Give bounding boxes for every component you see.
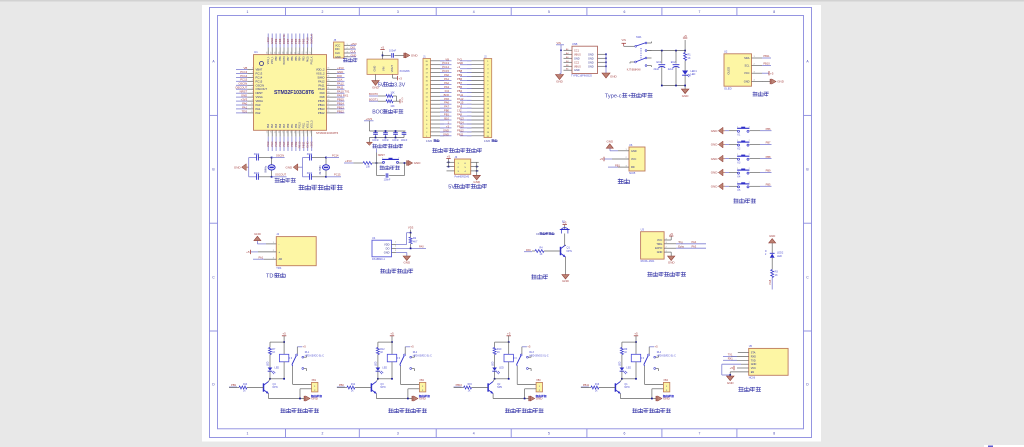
svg-text:2: 2	[321, 432, 323, 436]
bluetooth rxd wire	[731, 356, 749, 358]
svg-text:8: 8	[773, 432, 775, 436]
svg-text:BOOT: BOOT	[372, 110, 388, 116]
svg-text:TDS: TDS	[266, 274, 277, 280]
svg-text:OSCOUT: OSCOUT	[256, 87, 268, 91]
relay RL3 coil	[504, 354, 513, 362]
svg-text:VBAT: VBAT	[256, 68, 263, 72]
svg-text:22uF: 22uF	[668, 68, 674, 71]
svg-text:GND: GND	[457, 61, 463, 65]
svg-text:1K: 1K	[380, 351, 383, 354]
svg-text:GND: GND	[744, 80, 750, 84]
svg-text:GND: GND	[351, 53, 357, 57]
svg-text:PB4: PB4	[299, 56, 302, 61]
button K3 row	[718, 155, 723, 162]
svg-text:EC1: EC1	[657, 61, 662, 64]
svg-text:GND: GND	[411, 54, 419, 58]
svg-text:U4: U4	[372, 236, 376, 240]
module gnd pin wire	[618, 150, 629, 152]
svg-text:1: 1	[247, 432, 249, 436]
svg-text:PNCLK: PNCLK	[311, 56, 314, 64]
svg-text:VDD: VDD	[384, 243, 390, 247]
usb left gnd wiring	[560, 45, 562, 74]
svg-text:XB3: XB3	[536, 379, 541, 382]
svg-text:PB7: PB7	[457, 81, 463, 85]
svg-text:45: 45	[279, 52, 281, 54]
connector X4 pin2 wire	[652, 388, 664, 390]
svg-text:DO: DO	[386, 246, 390, 250]
svg-text:LED: LED	[620, 361, 622, 366]
svg-text:PC15: PC15	[334, 173, 341, 177]
svg-text:42: 42	[290, 52, 292, 54]
svg-text:PB11: PB11	[457, 132, 464, 136]
svg-text:GND: GND	[443, 128, 449, 132]
svg-text:1K: 1K	[272, 351, 275, 354]
svg-text:100nF: 100nF	[372, 140, 379, 142]
svg-text:VDDA: VDDA	[256, 99, 264, 103]
net label bottom Y2 32.768K	[326, 176, 341, 178]
svg-text:SC05: SC05	[629, 172, 636, 175]
svg-text:34: 34	[327, 76, 329, 78]
svg-text:R14: R14	[351, 384, 356, 386]
svg-text:PB3: PB3	[303, 56, 306, 61]
svg-text:5: 5	[548, 432, 550, 436]
button K5 row	[718, 183, 723, 190]
svg-text:+5: +5	[683, 34, 687, 38]
svg-text:7: 7	[252, 91, 253, 93]
svg-text:PB4: PB4	[457, 89, 463, 93]
svg-text:PB6: PB6	[457, 77, 463, 81]
svg-text:PA0: PA0	[256, 103, 261, 107]
capacitor 30pF top Y1 8MHz	[256, 155, 258, 161]
svg-text:LED: LED	[626, 367, 631, 370]
ds18b20 gnd wire	[392, 252, 397, 254]
svg-text:8MHz: 8MHz	[264, 165, 268, 172]
svg-text:PB7: PB7	[287, 56, 290, 61]
svg-text:GND: GND	[588, 65, 594, 68]
svg-text:KJT BB84X8: KJT BB84X8	[627, 68, 641, 71]
power +5 into VIN	[382, 52, 384, 60]
svg-text:EN: EN	[751, 371, 755, 374]
svg-text:7: 7	[698, 10, 700, 14]
svg-text:VB: VB	[445, 57, 449, 61]
relay 4 switch to connector	[643, 365, 646, 367]
svg-text:47: 47	[271, 52, 273, 54]
buzzer emitter to ground	[565, 257, 567, 275]
svg-text:GND: GND	[711, 129, 719, 133]
crystal Y2 32.768K	[325, 158, 327, 165]
svg-text:PB11: PB11	[763, 54, 770, 58]
svg-text:PA2: PA2	[444, 81, 449, 85]
svg-text:Type-c: Type-c	[605, 94, 622, 100]
relay 2 emitter ground	[375, 394, 377, 399]
svg-text:VSS_1: VSS_1	[271, 56, 274, 64]
ds18b20 vdd wire	[392, 244, 397, 246]
svg-text:PA0: PA0	[444, 73, 449, 77]
transistor Q2 NPN relay	[487, 383, 489, 391]
svg-text:VBUS: VBUS	[574, 53, 581, 56]
svg-text:PB12: PB12	[337, 109, 344, 113]
svg-text:PC15: PC15	[442, 69, 449, 73]
svg-text:PA3: PA3	[444, 85, 449, 89]
tds vcc pin	[258, 251, 276, 253]
led LED1	[682, 71, 688, 75]
svg-text:100nF: 100nF	[401, 140, 408, 142]
svg-text:5V: 5V	[378, 83, 385, 89]
svg-text:GND: GND	[668, 261, 676, 265]
caption smoke module	[618, 179, 630, 185]
svg-text:30pF: 30pF	[307, 172, 313, 175]
svg-text:XB2: XB2	[419, 379, 424, 382]
bottom rail and ground	[662, 85, 685, 87]
svg-text:GND: GND	[443, 132, 449, 136]
header J2 pin wires and net labels	[467, 60, 484, 62]
ground right of reset	[404, 162, 406, 164]
svg-text:SDA: SDA	[744, 56, 750, 60]
svg-text:TDS: TDS	[242, 109, 248, 113]
svg-text:STA: STA	[751, 352, 756, 355]
svg-text:PB8: PB8	[766, 155, 771, 159]
net +3V3 top	[410, 230, 412, 233]
capacitor 30pF bottom Y2 32.768K	[309, 174, 311, 180]
connector X1 pin2 wire	[300, 388, 312, 390]
svg-text:GND: GND	[769, 234, 775, 238]
svg-text:XC6206: XC6206	[400, 69, 411, 73]
svg-text:33: 33	[327, 80, 329, 82]
resistor R3 1K for LED2	[771, 270, 774, 278]
mcu U1 STM32F103C8T6 body	[254, 55, 327, 131]
connector X3 caption	[536, 395, 547, 398]
svg-text:VIN: VIN	[382, 67, 386, 71]
relay circuit 3 +5 rail	[507, 335, 511, 337]
second sheet corner	[984, 445, 1024, 447]
capacitor EC1 22uF	[661, 51, 663, 64]
svg-text:PA0: PA0	[419, 244, 424, 248]
svg-text:2: 2	[321, 10, 323, 14]
svg-text:VCC: VCC	[631, 158, 636, 161]
svg-text:XB1: XB1	[312, 379, 317, 382]
svg-text:GND: GND	[254, 232, 262, 236]
svg-text:U6: U6	[629, 143, 633, 147]
svg-text:VD3: VD3	[408, 225, 414, 229]
svg-text:BOOT0: BOOT0	[283, 56, 286, 65]
svg-text:LED: LED	[268, 361, 270, 366]
svg-text:PA7: PA7	[283, 123, 286, 128]
bluetooth gnd loop	[741, 363, 749, 365]
svg-text:+5: +5	[303, 345, 307, 349]
usb left pins	[564, 49, 573, 51]
svg-text:U1: U1	[254, 50, 258, 54]
svg-text:LED: LED	[777, 255, 782, 258]
svg-text:27: 27	[327, 103, 329, 105]
svg-text:100nF: 100nF	[384, 179, 391, 182]
svg-text:10K: 10K	[390, 91, 395, 94]
svg-text:30pF: 30pF	[254, 172, 260, 175]
svg-text:SW1: SW1	[636, 35, 642, 39]
svg-text:23: 23	[306, 131, 308, 133]
resistor R1 1K	[684, 51, 686, 53]
tds gnd pin	[266, 243, 276, 245]
svg-text:IO4: IO4	[445, 89, 450, 93]
svg-text:CC1: CC1	[574, 49, 580, 52]
crystal rail Y1 8MHz	[248, 158, 250, 177]
svg-text:+3V3: +3V3	[351, 42, 358, 46]
svg-text:NPN: NPN	[380, 386, 385, 389]
svg-text:2: 2	[252, 72, 253, 74]
resistor R7 1K relay led	[269, 342, 271, 347]
svg-text:U2: U2	[724, 50, 728, 54]
svg-text:GND: GND	[588, 61, 594, 64]
svg-text:+5: +5	[507, 332, 511, 336]
svg-text:26: 26	[327, 107, 329, 109]
buzzer B1	[563, 224, 567, 226]
svg-text:GND: GND	[606, 139, 614, 143]
svg-text:PA4: PA4	[692, 240, 697, 244]
connector X1 caption	[311, 395, 322, 398]
svg-text:32: 32	[327, 84, 329, 86]
svg-text:PA15: PA15	[307, 56, 310, 62]
svg-text:29: 29	[327, 95, 329, 97]
svg-text:19: 19	[290, 131, 292, 133]
svg-text:R15: R15	[468, 384, 473, 386]
capacitor 30pF bottom Y1 8MHz	[256, 174, 258, 180]
svg-text:PB12: PB12	[457, 128, 464, 132]
push button S1 reset	[377, 162, 384, 164]
svg-text:VCC: VCC	[751, 367, 756, 370]
oled ground	[762, 81, 770, 83]
svg-text:PA12: PA12	[457, 97, 464, 101]
svg-text:PA5: PA5	[444, 97, 449, 101]
svg-text:8: 8	[252, 95, 253, 97]
svg-text:NPN: NPN	[624, 386, 629, 389]
svg-text:NPN: NPN	[497, 386, 502, 389]
svg-text:PA1: PA1	[444, 77, 449, 81]
svg-text:6: 6	[252, 87, 253, 89]
svg-text:30pF: 30pF	[254, 153, 260, 156]
svg-text:48: 48	[267, 52, 269, 54]
svg-text:30pF: 30pF	[307, 153, 313, 156]
svg-text:PB2: PB2	[295, 123, 298, 128]
svg-text:28: 28	[327, 99, 329, 101]
svg-text:30: 30	[327, 91, 329, 93]
svg-text:1X20: 1X20	[426, 139, 433, 143]
svg-text:+5: +5	[669, 232, 673, 236]
svg-text:RL2: RL2	[413, 351, 418, 354]
header J1 pin wires and net labels	[431, 60, 445, 62]
svg-text:RL3: RL3	[529, 351, 534, 354]
svg-text:B10: B10	[444, 117, 449, 121]
relay circuit 2 +5 rail	[390, 335, 394, 337]
mcu right pin wires and net labels	[327, 69, 337, 71]
svg-text:+5: +5	[447, 154, 451, 158]
svg-text:PB5: PB5	[457, 85, 463, 89]
svg-text:VSS_2: VSS_2	[316, 71, 325, 75]
svg-text:11: 11	[251, 107, 253, 109]
ultrasonic echo wire	[664, 247, 676, 249]
usb left ground	[556, 75, 564, 80]
svg-text:GND: GND	[711, 185, 719, 189]
svg-text:PB14: PB14	[457, 121, 464, 125]
svg-text:PA1: PA1	[256, 107, 261, 111]
svg-text:AD: AD	[279, 257, 283, 261]
svg-text:PB6: PB6	[291, 56, 294, 61]
relay RL4 coil	[631, 354, 640, 362]
schematic sheet	[202, 5, 821, 442]
filter capacitors 100nF x4	[375, 131, 377, 133]
caption bluetooth module	[738, 387, 760, 392]
svg-text:4: 4	[252, 80, 253, 82]
svg-text:5V3: 5V3	[457, 57, 462, 61]
resistor R8 10K reset	[363, 162, 372, 165]
svg-text:GND: GND	[286, 165, 294, 169]
svg-text:14: 14	[271, 131, 273, 133]
svg-text:NPN: NPN	[273, 386, 278, 389]
net label top Y2 32.768K	[326, 157, 339, 159]
caption chip filter capacitors	[372, 144, 403, 149]
J3 left pins	[447, 161, 455, 163]
svg-text:3: 3	[252, 76, 253, 78]
svg-text:1K: 1K	[624, 351, 627, 354]
svg-text:3: 3	[397, 432, 399, 436]
svg-text:PC14: PC14	[332, 154, 339, 158]
button K4 row	[718, 169, 723, 176]
svg-text:VDD_1: VDD_1	[267, 56, 270, 64]
svg-text:GND: GND	[727, 381, 735, 385]
svg-text:GND: GND	[682, 94, 690, 98]
svg-text:PB9: PB9	[457, 73, 463, 77]
caption relay control output 3	[505, 408, 544, 413]
relay 3 switch to connector	[516, 365, 519, 367]
svg-text:DIO: DIO	[351, 46, 356, 50]
svg-text:VDD_2: VDD_2	[316, 68, 325, 72]
transistor Q1 NPN buzzer	[564, 234, 566, 246]
svg-text:VCC: VCC	[744, 71, 750, 75]
svg-text:OSCOUT: OSCOUT	[275, 173, 287, 177]
ground Y2 32.768K	[293, 164, 298, 171]
svg-text:VSSA: VSSA	[256, 95, 263, 99]
caption temperature module	[380, 269, 413, 274]
svg-text:PB6: PB6	[766, 127, 771, 131]
caption crystal circuit	[275, 178, 296, 183]
usb right ground	[602, 73, 610, 78]
svg-text:PA8: PA8	[768, 279, 772, 284]
svg-text:U3: U3	[641, 227, 645, 231]
svg-text:GND: GND	[711, 143, 719, 147]
svg-text:PA3: PA3	[692, 244, 697, 248]
svg-text:LED: LED	[492, 361, 494, 366]
relay 1 emitter ground	[268, 394, 270, 399]
caption relay control output 4	[632, 408, 671, 413]
capacitor 100nF at regulator	[383, 54, 391, 56]
svg-text:38: 38	[306, 52, 308, 54]
svg-text:17: 17	[282, 131, 284, 133]
svg-text:PA6: PA6	[444, 101, 449, 105]
svg-text:9: 9	[252, 99, 253, 101]
svg-text:NRST: NRST	[378, 153, 385, 157]
svg-text:R16: R16	[595, 384, 600, 386]
svg-text:+5: +5	[381, 45, 385, 49]
svg-text:PA4: PA4	[271, 123, 274, 128]
ground right of regulator	[404, 53, 405, 58]
svg-text:VSS_3: VSS_3	[307, 120, 310, 128]
resistor R2 4.7K pullup	[410, 233, 412, 238]
module vcc pin wire	[612, 158, 629, 160]
svg-text:10K: 10K	[366, 165, 371, 168]
svg-text:GND: GND	[473, 180, 481, 184]
filter ground stub	[368, 138, 370, 143]
svg-text:SWIO: SWIO	[317, 75, 324, 79]
ground Y1 8MHz	[242, 164, 247, 171]
svg-text:TDS: TDS	[276, 267, 281, 270]
power rail from switch	[647, 50, 685, 52]
svg-text:PC13: PC13	[442, 61, 449, 65]
svg-text:+5: +5	[634, 332, 638, 336]
svg-text:U5: U5	[749, 344, 753, 348]
svg-text:16: 16	[279, 131, 281, 133]
svg-text:PB1: PB1	[615, 163, 620, 167]
relay RL1 coil	[279, 354, 288, 362]
svg-text:GND: GND	[631, 150, 637, 153]
svg-text:PB5: PB5	[295, 56, 298, 61]
svg-text:+5: +5	[600, 157, 604, 161]
svg-text:13: 13	[267, 131, 269, 133]
svg-text:PB5: PB5	[766, 183, 771, 187]
svg-text:PA3: PA3	[267, 123, 270, 128]
transistor Q4 NPN relay	[263, 383, 265, 391]
svg-text:STM32F103C8T6: STM32F103C8T6	[274, 90, 314, 96]
svg-text:GND: GND	[588, 57, 594, 60]
svg-text:+3: +3	[446, 124, 450, 128]
svg-text:XB4: XB4	[663, 379, 668, 382]
svg-text:PA6: PA6	[526, 248, 531, 252]
svg-text:PB13: PB13	[457, 117, 464, 121]
svg-text:BO0: BO0	[444, 93, 450, 97]
svg-text:PA5: PA5	[275, 123, 278, 128]
caption buzzer	[531, 274, 548, 279]
svg-text:VIN: VIN	[622, 38, 626, 42]
svg-text:GND: GND	[657, 251, 663, 254]
svg-text:1K: 1K	[775, 274, 778, 277]
svg-text:VDD_3: VDD_3	[311, 120, 314, 128]
svg-text:PC14: PC14	[442, 65, 449, 69]
svg-text:40: 40	[298, 52, 300, 54]
crystal rail Y2 32.768K	[302, 158, 304, 177]
svg-text:PB8: PB8	[279, 56, 282, 61]
transistor Q3 NPN relay	[370, 383, 372, 391]
svg-text:PB10: PB10	[763, 62, 770, 66]
svg-text:PB9: PB9	[766, 169, 771, 173]
svg-text:39: 39	[302, 52, 304, 54]
svg-text:CF: CF	[536, 233, 540, 236]
button K2 row	[718, 141, 723, 148]
svg-text:GND: GND	[384, 251, 390, 255]
mcu left pin wires and net labels	[248, 69, 254, 71]
svg-text:25: 25	[327, 111, 329, 113]
svg-text:PC15: PC15	[256, 79, 263, 83]
svg-text:NRST: NRST	[256, 91, 264, 95]
bluetooth sta stub	[738, 352, 749, 354]
capacitor 30pF top Y2 32.768K	[309, 155, 311, 161]
svg-text:PB15: PB15	[457, 124, 464, 128]
svg-text:TYPEC16PIN0525: TYPEC16PIN0525	[571, 75, 592, 78]
svg-text:RL4: RL4	[657, 351, 662, 354]
svg-text:CLK: CLK	[351, 50, 356, 54]
svg-text:TX1: TX1	[728, 353, 733, 357]
svg-text:RCWL-1601: RCWL-1601	[641, 260, 655, 263]
svg-text:PB11: PB11	[303, 122, 306, 128]
svg-text:15: 15	[275, 131, 277, 133]
svg-text:OSCIN: OSCIN	[276, 154, 284, 158]
svg-text:1K: 1K	[468, 391, 471, 393]
